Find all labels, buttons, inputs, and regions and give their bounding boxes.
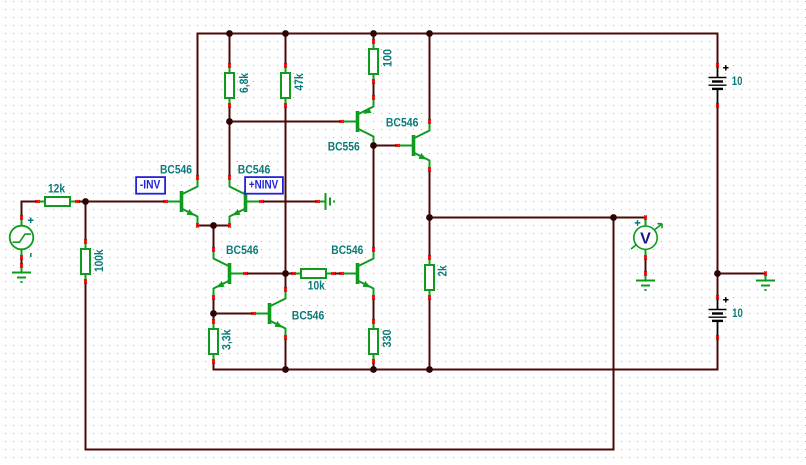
svg-text:BC546: BC546 xyxy=(160,162,192,176)
wire R1 right pin to node junction at x85 xyxy=(78,201,86,203)
svg-text:BC546: BC546 xyxy=(386,115,419,129)
battery B2 10V xyxy=(709,295,729,339)
svg-text:+NINV: +NINV xyxy=(249,177,278,191)
ground GND4 bottom right xyxy=(756,271,775,291)
node label -INV xyxy=(136,177,165,194)
svg-text:100: 100 xyxy=(381,49,395,67)
transistor Q4 BC546 current mirror xyxy=(251,287,287,339)
wire node C left to Q3 base xyxy=(246,273,286,275)
wire Q6 emitter to R8 330 top xyxy=(373,298,375,322)
value label 3,3k xyxy=(220,329,234,350)
value label 2k xyxy=(436,265,450,276)
svg-text:BC546: BC546 xyxy=(331,243,363,257)
value label 10 xyxy=(732,74,743,88)
wire R4 bottom down to node C xyxy=(285,106,287,274)
label Q7 BC546 xyxy=(386,115,419,129)
wire Q4 emitter to V- rail xyxy=(285,338,287,370)
battery B1 10V xyxy=(709,63,729,107)
wire R9 bottom to V- rail xyxy=(429,298,431,370)
resistor R7 10k xyxy=(291,269,335,278)
wire node D to R5 3,3k top xyxy=(213,314,215,322)
wire output junction down to R9 2k top xyxy=(429,218,431,258)
wire node E to battery B2 plus xyxy=(717,274,719,298)
wire top rail down to Q7 collector xyxy=(429,34,431,122)
wire V+ rail from left Q1 collector up and across top to battery B1 plus xyxy=(198,34,718,178)
voltage generator VG1 xyxy=(10,215,34,259)
resistor R3 6,8k xyxy=(225,63,234,107)
wire Q2 base to ground GND2 (+NINV) xyxy=(262,201,318,203)
resistor R1 12k xyxy=(35,197,79,206)
wire Q5 collector node to Q7 base xyxy=(374,145,398,147)
value label 12k xyxy=(48,182,65,196)
wire Q5 collector node down to Q6 collector xyxy=(373,146,375,250)
junction diff pair tail xyxy=(210,222,217,229)
wire top rail to R3 6,8k top xyxy=(229,34,231,66)
label Q5 BC556 xyxy=(328,139,360,153)
resistor R8 330 xyxy=(369,319,378,363)
junction V- rail at 2k xyxy=(426,366,433,373)
value label 10k xyxy=(308,279,325,293)
value label 330 xyxy=(380,329,394,347)
value label 100k xyxy=(92,249,106,272)
svg-text:10: 10 xyxy=(732,74,743,88)
svg-text:BC556: BC556 xyxy=(328,139,360,153)
label Q1 BC546 xyxy=(160,162,192,176)
node B junction 6,8k/Q5 base/Q2 collector xyxy=(226,118,233,125)
value label 10 xyxy=(732,306,743,320)
wire Q1 emitter to Q2 emitter tail xyxy=(198,225,230,227)
junction Q5 collector node xyxy=(370,142,377,149)
label Q4 BC546 xyxy=(292,309,325,323)
wire node C down to Q4 collector xyxy=(285,274,287,290)
wire top rail to R6 100 top xyxy=(373,34,375,42)
wire top rail to R4 47k top xyxy=(285,34,287,66)
svg-text:2k: 2k xyxy=(436,265,450,276)
ground GND1 below VG1 xyxy=(12,263,31,283)
transistor Q5 BC556 pnp xyxy=(339,95,375,147)
ground GND3 below voltmeter xyxy=(636,271,655,291)
VG1 plus sign xyxy=(28,218,34,224)
wire node A down to R2 100k top xyxy=(85,202,87,242)
svg-text:BC546: BC546 xyxy=(238,162,271,176)
junction top rail at 100 xyxy=(370,30,377,37)
wire R6 bottom to Q5 emitter xyxy=(373,82,375,98)
transistor Q2 BC546 non-inverting input xyxy=(228,175,264,227)
wire R5 bottom along V- rail to battery B2 minus xyxy=(214,338,718,370)
junction V- rail at 330 xyxy=(370,366,377,373)
svg-text:6,8k: 6,8k xyxy=(237,73,251,93)
junction V- rail at Q4 emitter xyxy=(282,366,289,373)
svg-text:3,3k: 3,3k xyxy=(220,329,234,350)
wire Q3 emitter down to node D xyxy=(213,298,215,314)
voltmeter plus sign xyxy=(635,220,641,226)
resistor R4 47k xyxy=(281,63,290,107)
transistor Q3 BC546 tail current source xyxy=(212,247,248,299)
svg-text:12k: 12k xyxy=(48,182,65,196)
node D junction Q3 emitter/3,3k/Q4 base xyxy=(210,310,217,317)
svg-text:100k: 100k xyxy=(92,249,106,272)
resistor R9 2k xyxy=(425,255,434,299)
svg-text:10k: 10k xyxy=(308,279,325,293)
wire R8 bottom to V- rail xyxy=(373,362,375,370)
voltmeter VM1 xyxy=(631,215,662,259)
junction top rail at 6,8k xyxy=(226,30,233,37)
value label 100 xyxy=(381,49,395,67)
label Q3 BC546 xyxy=(226,243,259,257)
wire VG1 plus to 12k R1 left pin xyxy=(22,202,38,218)
wire Q7 emitter down to output junction xyxy=(429,170,431,218)
svg-text:330: 330 xyxy=(380,329,394,347)
resistor R6 100 xyxy=(369,39,378,83)
wire tail node down to Q3 collector xyxy=(213,226,215,250)
svg-text:V: V xyxy=(640,231,651,248)
wire R2 bottom around bottom-left to output node xyxy=(86,218,614,450)
VG1 minus sign xyxy=(30,253,32,257)
svg-text:47k: 47k xyxy=(292,73,306,90)
transistor Q1 BC546 inverting input xyxy=(163,175,199,227)
wire node E to ground GND4 xyxy=(718,273,766,275)
node label +NINV xyxy=(245,177,283,194)
svg-text:BC546: BC546 xyxy=(292,309,325,323)
junction top rail at 47k xyxy=(282,30,289,37)
resistor R5 3,3k xyxy=(209,319,218,363)
wire node A to Q1 base (-INV) xyxy=(86,201,166,203)
label Q6 BC546 xyxy=(331,243,363,257)
junction output at Q7 emitter xyxy=(426,214,433,221)
svg-text:BC546: BC546 xyxy=(226,243,259,257)
resistor R2 100k xyxy=(81,239,90,283)
junction output feedback node xyxy=(610,214,617,221)
label Q2 BC546 xyxy=(238,162,271,176)
junction top rail at Q7 collector xyxy=(426,30,433,37)
wire battery B1 minus down to node E xyxy=(717,106,719,274)
wire output node from Q7 emitter row to voltmeter xyxy=(430,217,646,219)
transistor Q7 BC546 output xyxy=(395,119,431,171)
wire R7 10k right to Q6 base xyxy=(334,273,342,275)
wire VG1 minus to ground GND1 xyxy=(21,258,23,266)
node A junction 12k/100k/Q1 base xyxy=(82,198,89,205)
value label 47k xyxy=(292,73,306,90)
wire node D to Q4 base xyxy=(214,313,254,315)
wire node B down to Q2 collector xyxy=(229,122,231,178)
svg-text:-INV: -INV xyxy=(140,177,161,191)
wire voltmeter minus to ground GND3 xyxy=(645,258,647,274)
node C junction 47k/10k/Q3 base/Q4 collector xyxy=(282,270,289,277)
node E junction between batteries xyxy=(714,270,721,277)
wire R3 bottom to node B xyxy=(229,106,231,122)
wire node C to R7 10k left xyxy=(286,273,294,275)
value label 6,8k xyxy=(237,73,251,93)
ground GND2 at non-inverting input xyxy=(315,193,335,210)
wire node B to Q5 BC556 base xyxy=(230,121,342,123)
svg-text:10: 10 xyxy=(732,306,743,320)
transistor Q6 BC546 driver xyxy=(339,247,375,299)
